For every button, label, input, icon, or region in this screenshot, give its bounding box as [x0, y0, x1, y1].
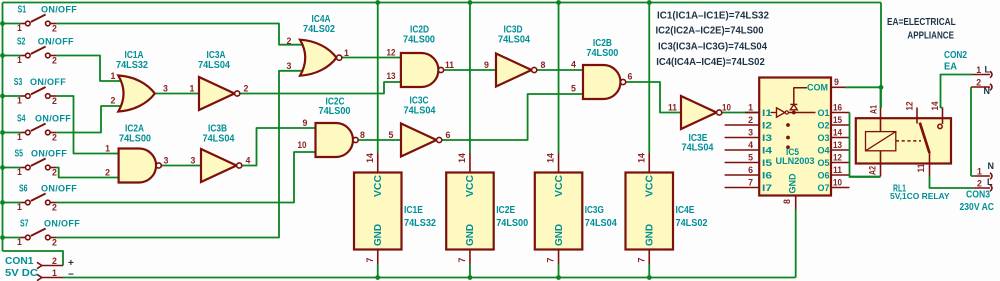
svg-text:2: 2: [52, 238, 57, 248]
svg-text:74LS02: 74LS02: [303, 24, 335, 35]
svg-text:1: 1: [17, 167, 22, 177]
svg-text:S5: S5: [15, 149, 24, 160]
svg-text:GND: GND: [554, 224, 565, 246]
svg-text:VCC: VCC: [644, 175, 655, 197]
svg-text:2: 2: [111, 96, 116, 106]
svg-text:74LS04: 74LS04: [198, 60, 231, 71]
svg-text:ON/OFF: ON/OFF: [31, 149, 67, 159]
svg-text:2: 2: [244, 84, 249, 94]
svg-text:O1: O1: [818, 107, 830, 118]
svg-text:9: 9: [834, 77, 839, 87]
svg-text:9: 9: [484, 60, 489, 70]
svg-text:EA: EA: [944, 62, 957, 73]
svg-text:1: 1: [748, 103, 753, 113]
svg-text:O2: O2: [818, 120, 830, 131]
svg-text:14: 14: [636, 153, 646, 163]
svg-text:6: 6: [628, 72, 633, 82]
svg-text:ON/OFF: ON/OFF: [30, 77, 66, 87]
svg-text:N: N: [984, 86, 991, 96]
svg-text:ON/OFF: ON/OFF: [41, 5, 77, 15]
svg-text:2: 2: [105, 168, 110, 178]
svg-text:1: 1: [977, 167, 982, 177]
svg-text:1: 1: [190, 84, 195, 94]
svg-text:6: 6: [748, 165, 753, 175]
svg-text:8: 8: [360, 130, 365, 140]
svg-text:11: 11: [668, 103, 677, 113]
svg-text:2: 2: [748, 115, 753, 125]
svg-text:ON/OFF: ON/OFF: [35, 114, 71, 124]
svg-text:IC2(IC2A–IC2E)=74LS00: IC2(IC2A–IC2E)=74LS00: [656, 26, 764, 37]
svg-text:13: 13: [387, 71, 396, 81]
svg-text:12: 12: [905, 101, 915, 110]
svg-text:ON/OFF: ON/OFF: [44, 219, 80, 229]
svg-text:S1: S1: [18, 5, 27, 16]
svg-text:8: 8: [782, 199, 792, 204]
svg-text:7: 7: [636, 257, 646, 262]
svg-text:O4: O4: [818, 145, 831, 156]
svg-text:4: 4: [571, 60, 576, 70]
svg-text:74LS00: 74LS00: [496, 218, 528, 229]
svg-text:12: 12: [387, 47, 396, 57]
svg-text:16: 16: [833, 103, 842, 113]
svg-text:5V DC: 5V DC: [5, 268, 38, 279]
svg-text:74LS04: 74LS04: [498, 35, 531, 46]
svg-text:230V AC: 230V AC: [960, 202, 995, 213]
svg-text:I7: I7: [762, 182, 772, 193]
svg-text:−: −: [68, 270, 74, 281]
svg-text:1: 1: [17, 202, 22, 212]
svg-text:I6: I6: [762, 170, 772, 181]
svg-text:+: +: [68, 258, 74, 269]
svg-text:1: 1: [111, 71, 116, 81]
svg-text:10: 10: [833, 178, 842, 188]
svg-text:10: 10: [298, 140, 307, 150]
svg-text:8: 8: [541, 60, 546, 70]
svg-text:7: 7: [546, 257, 556, 262]
svg-text:74LS00: 74LS00: [586, 48, 618, 59]
svg-text:IC3G: IC3G: [585, 205, 604, 216]
svg-text:14: 14: [930, 101, 940, 110]
svg-text:A1: A1: [869, 105, 879, 114]
svg-text:ULN2003: ULN2003: [776, 155, 815, 166]
svg-text:2: 2: [52, 133, 57, 143]
svg-text:GND: GND: [786, 173, 797, 193]
svg-text:N: N: [988, 161, 995, 171]
svg-text:L: L: [985, 65, 991, 75]
svg-text:2: 2: [52, 96, 57, 106]
svg-text:2: 2: [976, 78, 981, 88]
svg-text:3: 3: [287, 61, 292, 71]
svg-text:13: 13: [833, 140, 842, 150]
svg-text:S3: S3: [14, 77, 23, 88]
svg-text:CON2: CON2: [944, 50, 967, 61]
svg-text:1: 1: [976, 65, 981, 75]
svg-text:CON1: CON1: [5, 256, 34, 267]
svg-text:O5: O5: [818, 157, 830, 168]
svg-text:CON3: CON3: [966, 190, 991, 201]
svg-text:11: 11: [445, 60, 454, 70]
svg-text:74LS04: 74LS04: [203, 134, 236, 145]
svg-text:2: 2: [977, 179, 982, 189]
svg-text:4: 4: [246, 156, 251, 166]
svg-text:IC4E: IC4E: [676, 205, 695, 216]
svg-text:4: 4: [748, 140, 753, 150]
svg-text:3: 3: [164, 156, 169, 166]
svg-text:IC1(IC1A–IC1E)=74LS32: IC1(IC1A–IC1E)=74LS32: [657, 11, 769, 22]
svg-text:14: 14: [833, 128, 842, 138]
svg-text:74LS02: 74LS02: [676, 218, 708, 229]
svg-text:7: 7: [365, 257, 375, 262]
svg-text:EA=ELECTRICAL: EA=ELECTRICAL: [887, 17, 956, 28]
svg-text:14: 14: [546, 153, 556, 163]
svg-text:7: 7: [748, 178, 753, 188]
svg-text:5: 5: [389, 130, 394, 140]
svg-text:6: 6: [446, 130, 451, 140]
svg-text:S7: S7: [20, 219, 29, 230]
svg-text:2: 2: [287, 36, 292, 46]
svg-text:IC1E: IC1E: [404, 205, 423, 216]
svg-text:IC3(IC3A–IC3G)=74LS04: IC3(IC3A–IC3G)=74LS04: [658, 42, 768, 53]
svg-text:11: 11: [833, 165, 842, 175]
svg-text:1: 1: [17, 132, 22, 142]
svg-text:74LS00: 74LS00: [319, 106, 351, 117]
svg-text:A2: A2: [868, 166, 878, 175]
svg-text:74LS04: 74LS04: [404, 106, 437, 117]
svg-text:2: 2: [52, 168, 57, 178]
svg-text:10: 10: [722, 103, 731, 113]
svg-text:GND: GND: [373, 224, 384, 246]
svg-text:3: 3: [163, 84, 168, 94]
svg-text:12: 12: [833, 153, 842, 163]
svg-text:I2: I2: [762, 120, 772, 131]
svg-text:2: 2: [52, 56, 57, 66]
svg-text:5V,1CO RELAY: 5V,1CO RELAY: [890, 192, 950, 201]
svg-text:2: 2: [52, 203, 57, 213]
svg-text:O7: O7: [818, 182, 830, 193]
svg-text:1: 1: [17, 96, 22, 106]
svg-text:ON/OFF: ON/OFF: [41, 184, 77, 194]
svg-text:1: 1: [344, 48, 349, 58]
svg-text:14: 14: [457, 153, 467, 163]
svg-text:2: 2: [52, 256, 57, 266]
svg-text:1: 1: [17, 55, 22, 65]
svg-text:IC2E: IC2E: [496, 205, 515, 216]
svg-text:GND: GND: [644, 224, 655, 246]
svg-text:74LS32: 74LS32: [116, 60, 148, 71]
svg-text:74LS04: 74LS04: [585, 218, 618, 229]
svg-text:1: 1: [52, 268, 57, 278]
svg-text:O3: O3: [818, 132, 830, 143]
svg-text:VCC: VCC: [373, 175, 384, 197]
svg-text:3: 3: [748, 128, 753, 138]
svg-text:7: 7: [457, 257, 467, 262]
svg-text:ON/OFF: ON/OFF: [38, 37, 74, 47]
svg-text:S2: S2: [17, 37, 26, 48]
svg-text:5: 5: [748, 153, 753, 163]
svg-text:I5: I5: [762, 157, 772, 168]
svg-text:74LS00: 74LS00: [403, 35, 435, 46]
svg-text:GND: GND: [465, 224, 476, 246]
svg-text:11: 11: [916, 163, 926, 172]
svg-text:1: 1: [105, 144, 110, 154]
svg-text:APPLIANCE: APPLIANCE: [907, 31, 954, 42]
svg-text:O6: O6: [818, 170, 830, 181]
svg-text:5: 5: [571, 84, 576, 94]
svg-text:1: 1: [17, 23, 22, 33]
svg-text:15: 15: [833, 115, 842, 125]
svg-text:14: 14: [365, 153, 375, 163]
svg-text:L: L: [987, 177, 993, 187]
svg-text:2: 2: [52, 24, 57, 34]
svg-text:VCC: VCC: [465, 175, 476, 197]
svg-text:S4: S4: [17, 114, 26, 125]
svg-text:S6: S6: [19, 184, 28, 195]
svg-text:COM: COM: [807, 81, 828, 92]
svg-text:IC4(IC4A–IC4E)=74LS02: IC4(IC4A–IC4E)=74LS02: [656, 57, 765, 68]
svg-text:74LS00: 74LS00: [119, 134, 151, 145]
svg-text:I4: I4: [762, 145, 773, 156]
svg-text:74LS04: 74LS04: [682, 143, 715, 154]
svg-text:1: 1: [17, 237, 22, 247]
svg-text:74LS32: 74LS32: [404, 218, 436, 229]
svg-text:3: 3: [191, 156, 196, 166]
svg-text:9: 9: [303, 118, 308, 128]
svg-text:I3: I3: [762, 132, 772, 143]
svg-text:VCC: VCC: [554, 175, 565, 197]
